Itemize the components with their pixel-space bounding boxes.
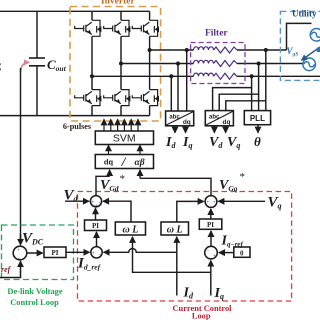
inductor-resistor branch 2 <box>194 60 214 63</box>
wire 6 gate pulse arrows <box>104 119 138 130</box>
wire VGq star output <box>140 178 211 195</box>
svg-text:ω L: ω L <box>167 224 183 235</box>
de-link voltage loop dashed box <box>2 225 74 280</box>
svg-text:abc: abc <box>209 114 220 120</box>
svg-text:C: C <box>0 60 2 74</box>
inductor-resistor branch 1 <box>194 47 238 80</box>
svg-text:+: + <box>95 204 98 209</box>
wire Vd to VGd summer <box>65 200 89 202</box>
block SVM <box>95 131 153 145</box>
svg-text:+: + <box>206 201 209 206</box>
wire V_DC sense line <box>20 68 22 241</box>
block omega-L right <box>161 222 189 235</box>
wire leg C <box>149 11 151 20</box>
wire PI d to VGd summer <box>95 208 97 220</box>
summer Iq <box>205 246 218 259</box>
wire Id summer to PI <box>96 232 98 247</box>
svg-text:+: + <box>92 251 95 256</box>
svg-text:De-link Voltage: De-link Voltage <box>7 287 62 296</box>
wire leg B <box>120 11 122 20</box>
transistor Q2 <box>75 90 102 106</box>
capacitor C_out <box>29 11 67 115</box>
wire Id feed up to omegaL right <box>176 237 178 252</box>
wire Iq up into summer <box>210 272 212 295</box>
svg-text:Filter: Filter <box>205 29 228 39</box>
wire Id vertical bottom <box>176 252 178 295</box>
wire dq/ab to SVM arrows <box>108 145 110 154</box>
svg-text:dq: dq <box>223 119 231 126</box>
summer Id <box>91 247 102 258</box>
AC source G2 <box>303 58 316 71</box>
summer VGq <box>205 196 217 208</box>
svg-text:dq: dq <box>104 158 114 167</box>
wire Iq summer to PI q <box>210 231 212 246</box>
svg-text:+: + <box>213 201 216 206</box>
wire zero to Iq summer <box>219 252 234 254</box>
block PLL <box>244 111 270 125</box>
wire Id Iq output arrows <box>174 126 176 133</box>
wire VGd star output <box>96 176 110 195</box>
block PI d-axis <box>85 220 107 231</box>
block abc/dq current <box>166 111 194 126</box>
transistor Q1 <box>75 20 102 36</box>
wire Vd Vq output arrows <box>213 126 215 133</box>
wire leg A <box>91 11 93 20</box>
svg-text:+: + <box>17 248 20 253</box>
wire theta arrow <box>257 125 259 133</box>
node junction dots <box>90 48 268 78</box>
svg-text:abc: abc <box>169 115 180 121</box>
utility dashed box <box>280 11 320 80</box>
wire phase line 2 <box>121 63 194 65</box>
filter dashed box <box>191 43 245 84</box>
wire PI q to VGq summer <box>210 209 212 219</box>
inductor-resistor branch 3 <box>194 73 214 76</box>
svg-text:PI: PI <box>92 222 99 230</box>
svg-text:+: + <box>213 254 216 259</box>
wire omegaL left out to VGd summer <box>108 201 131 222</box>
svg-text:Inverter: Inverter <box>101 0 136 6</box>
svg-text:PLL: PLL <box>250 114 265 123</box>
block dq/alphabeta <box>95 154 153 169</box>
svg-text:*: * <box>120 173 126 185</box>
svg-text:αβ: αβ <box>134 158 144 168</box>
transistor Q3 <box>104 20 131 36</box>
svg-text:*: * <box>240 171 246 183</box>
inverter dashed box <box>70 7 161 122</box>
block PI dc-link <box>27 247 66 258</box>
block omega-L left <box>115 222 145 235</box>
svg-text:Control Loop: Control Loop <box>10 298 59 307</box>
svg-text:SVM: SVM <box>113 132 136 144</box>
phasor arrow <box>302 47 320 60</box>
block abc/dq voltage <box>205 111 233 126</box>
wire omegaL right out to VGq summer <box>177 201 198 222</box>
current control loop dashed box <box>78 192 292 302</box>
transistor Q5 <box>132 20 159 36</box>
wire Iq feed to omegaL left <box>133 241 211 272</box>
wire voltage sense staircases <box>213 50 266 133</box>
wire PI out to Id summer <box>66 251 89 253</box>
wire phase line 3 <box>92 75 194 77</box>
svg-text:Utility: Utility <box>292 9 317 19</box>
block PI q-axis <box>199 219 222 229</box>
svg-text:dq: dq <box>183 119 191 126</box>
wire bottom DC rail <box>0 115 150 117</box>
V_DC sense arrow (pink) <box>21 62 30 72</box>
summer VDC <box>0 234 27 278</box>
wire Vq to VGq summer <box>218 200 265 202</box>
wire current sense taps <box>171 50 186 133</box>
svg-text:6-pulses: 6-pulses <box>63 122 91 131</box>
svg-text:ref: ref <box>1 265 12 274</box>
wire top DC rail <box>0 10 150 12</box>
svg-text:Loop: Loop <box>192 312 211 320</box>
svg-text:PI: PI <box>207 221 214 229</box>
transistor Q4 <box>104 90 131 106</box>
AC source G1 <box>303 29 320 71</box>
svg-text:PI: PI <box>52 249 59 257</box>
wire phase line 1 <box>150 49 194 51</box>
block zero ref <box>234 247 250 257</box>
summer VGd <box>90 196 101 207</box>
wire Id feedback with hop <box>108 249 177 253</box>
svg-text:θ: θ <box>254 134 261 149</box>
transistor Q6 <box>132 90 159 106</box>
svg-text:ω L: ω L <box>122 224 138 235</box>
svg-text:0: 0 <box>240 249 244 257</box>
